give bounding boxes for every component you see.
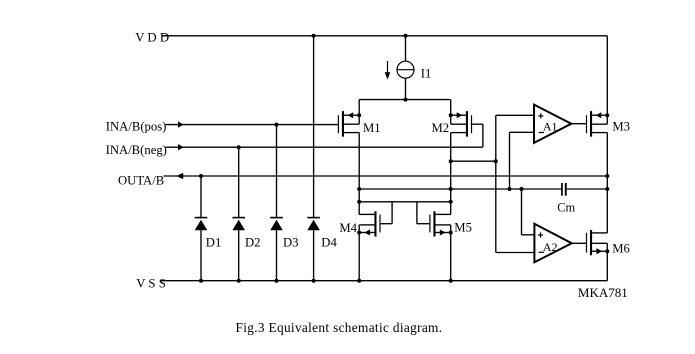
label A2 (543, 240, 558, 254)
wire M5 to VSS (450, 225, 452, 281)
port label INA/B(pos) (106, 119, 167, 133)
wire A1 - input (510, 131, 535, 133)
wire M3 source down to M6 drain (606, 133, 608, 233)
wire A1 + input (496, 114, 534, 116)
label M1 (363, 121, 381, 135)
bulk stub with arrow of M2 (451, 112, 466, 118)
wire feedback vertical (495, 115, 497, 252)
drain stub of M1 (344, 123, 359, 125)
bulk stub of M6 (592, 242, 607, 244)
label M4 (339, 221, 357, 235)
junction M2-drain/gate line (449, 200, 453, 204)
diode D1 (195, 217, 208, 230)
bulk stub of M4 (359, 224, 374, 226)
source stub of M1 (344, 132, 359, 134)
svg-text:D3: D3 (283, 235, 299, 249)
junction M5 source (449, 231, 453, 235)
junction feedback/A-verticals (494, 159, 498, 163)
label D4 (321, 235, 337, 249)
drain stub of M4 (359, 213, 374, 215)
op-amp A2 (534, 224, 571, 262)
current arrow of I1 (385, 61, 391, 80)
op-amp A1 (534, 105, 571, 143)
wire D4 cathode lead (313, 230, 315, 281)
wire M1 upper vertical (358, 100, 360, 125)
label M2 (432, 121, 450, 135)
minus sign of A2 (539, 251, 544, 253)
source stub of M2 (451, 132, 466, 134)
gate bar of M2 (471, 115, 472, 133)
label D2 (245, 235, 261, 249)
wire M5 gate stub (417, 202, 429, 224)
junction M2-drain/feedback (449, 159, 453, 163)
junction VSS/D3 (275, 279, 279, 283)
junction neg/D2 (237, 145, 241, 149)
svg-text:V D D: V D D (135, 31, 169, 45)
junction A1-/Cm line (508, 187, 512, 191)
caption Fig.3 (236, 320, 443, 335)
wire I1 to source rail (405, 78, 407, 99)
wire D3 anode lead (276, 125, 278, 218)
plus sign of A1 (538, 113, 543, 118)
wire M2 upper vertical (450, 100, 452, 125)
bulk stub with arrow of M1 (344, 112, 359, 118)
drain stub of M6 (592, 232, 607, 234)
wire A2 + input (522, 234, 535, 236)
svg-text:OUTA/B: OUTA/B (118, 174, 164, 188)
junction VSS/M4 (357, 279, 361, 283)
label D1 (206, 235, 222, 249)
diode D3 (270, 217, 283, 230)
wire M4 to VSS (358, 225, 360, 281)
junction VDD/I1 (404, 34, 408, 38)
channel bar of M2 (466, 111, 468, 137)
junction VSS/D2 (237, 279, 241, 283)
svg-text:M6: M6 (612, 241, 630, 255)
svg-text:INA/B(neg): INA/B(neg) (106, 143, 167, 157)
label M3 (612, 119, 630, 133)
wire INA/B(pos) line (166, 121, 338, 127)
wire D1 cathode lead (200, 230, 202, 281)
junction M4 source (357, 231, 361, 235)
source stub of M3 (592, 132, 607, 134)
svg-text:M3: M3 (612, 119, 630, 133)
junction M1-drain/Cm line (357, 187, 361, 191)
wire VSS rail (161, 280, 608, 282)
diode D2 (232, 217, 245, 230)
wire A1 output to M3 gate (571, 123, 586, 125)
wire D3 cathode lead (276, 230, 278, 281)
capacitor Cm (561, 183, 567, 196)
wire A2+ vertical (521, 189, 523, 235)
label MKA781 (578, 285, 628, 300)
channel bar of M1 (342, 111, 344, 137)
junction M3 bulk/drain (605, 113, 609, 117)
svg-text:M4: M4 (339, 221, 357, 235)
gate bar of M1 (338, 115, 339, 133)
channel bar of M6 (590, 230, 592, 255)
diode D4 (307, 217, 320, 230)
wire Cm line right (567, 188, 608, 190)
wire D1 anode lead (200, 176, 202, 218)
plus sign of A2 (538, 232, 543, 237)
wire M4-M5 gate line (359, 201, 451, 203)
svg-text:D4: D4 (321, 235, 337, 249)
net label VSS (136, 277, 166, 291)
svg-text:D2: D2 (245, 235, 261, 249)
drain stub of M5 (436, 213, 451, 215)
junction Cm/M3-M6 vertical (605, 187, 609, 191)
drain stub of M2 (451, 123, 466, 125)
label M6 (612, 241, 630, 255)
source stub with arrow of M6 (592, 248, 607, 254)
wire VDD to I1 (405, 36, 407, 61)
svg-text:MKA781: MKA781 (578, 285, 628, 300)
channel bar of M4 (374, 211, 376, 236)
bulk stub of M5 (436, 224, 451, 226)
current source I1 (397, 61, 414, 78)
junction M2-drain/Cm line (449, 187, 453, 191)
gate bar of M5 (429, 215, 430, 233)
svg-text:INA/B(pos): INA/B(pos) (106, 119, 167, 133)
source stub with arrow of M4 (359, 230, 374, 236)
wire A1- vertical (509, 132, 511, 189)
svg-text:V S S: V S S (136, 277, 166, 291)
junction out/M3-M6 drain (605, 174, 609, 178)
gate bar of M4 (379, 215, 380, 233)
junction VSS/M5 (449, 279, 453, 283)
wire D2 anode lead (238, 147, 240, 217)
wire A2 - input (496, 252, 535, 254)
bulk stub with arrow of M3 (592, 112, 607, 118)
junction M6 source (605, 249, 609, 253)
wire M1 drain down (358, 133, 360, 215)
junction M1-drain/gate line (357, 200, 361, 204)
wire neg riser to M2 gate (472, 124, 483, 147)
wire D2 cathode lead (238, 230, 240, 281)
drain stub of M3 (592, 123, 607, 125)
port label OUTA/B (118, 174, 164, 188)
svg-text:M5: M5 (454, 221, 472, 235)
svg-text:M1: M1 (363, 121, 381, 135)
label A1 (543, 120, 558, 134)
label M5 (454, 221, 472, 235)
svg-text:Cm: Cm (557, 200, 575, 214)
junction I1/source rail (404, 98, 408, 102)
junction out/D1 (199, 174, 203, 178)
junction VDD/D4 (312, 34, 316, 38)
label Cm (557, 200, 575, 214)
wire A2 output to M6 gate (572, 242, 587, 244)
net label VDD (135, 31, 169, 45)
junction M2 bulk/drain (449, 113, 453, 117)
svg-text:Fig.3 Equivalent schematic dia: Fig.3 Equivalent schematic diagram. (236, 320, 443, 335)
junction VSS/D1 (199, 279, 203, 283)
wire INA/B(neg) line (166, 144, 483, 150)
svg-text:M2: M2 (432, 121, 450, 135)
gate bar of M6 (586, 233, 587, 253)
minus sign of A1 (539, 132, 544, 134)
wire OUTA/B line (164, 173, 608, 179)
wire M3 upper vertical (606, 36, 608, 124)
junction pos/D3 (275, 123, 279, 127)
svg-text:A1: A1 (543, 120, 558, 134)
wire M2 drain down (450, 133, 452, 215)
channel bar of M3 (590, 111, 592, 137)
wire feedback segment (451, 160, 496, 162)
wire M4 gate stub (381, 202, 393, 224)
port label INA/B(neg) (106, 143, 167, 157)
wire VDD rail (162, 35, 608, 37)
svg-text:D1: D1 (206, 235, 222, 249)
junction M1 bulk/drain (357, 113, 361, 117)
wire source rail M1-M2 (359, 99, 451, 101)
gate bar of M3 (586, 115, 587, 133)
channel bar of M5 (433, 211, 435, 236)
wire M6 to VSS (606, 243, 608, 280)
source stub with arrow of M5 (436, 230, 451, 236)
wire D4 anode lead (313, 36, 315, 218)
svg-text:A2: A2 (543, 240, 558, 254)
label D3 (283, 235, 299, 249)
junction VSS/D4 (312, 279, 316, 283)
wire Cm line left (359, 188, 561, 190)
label I1 (421, 67, 432, 81)
junction A2+/Cm line (520, 187, 524, 191)
svg-text:I1: I1 (421, 67, 432, 81)
